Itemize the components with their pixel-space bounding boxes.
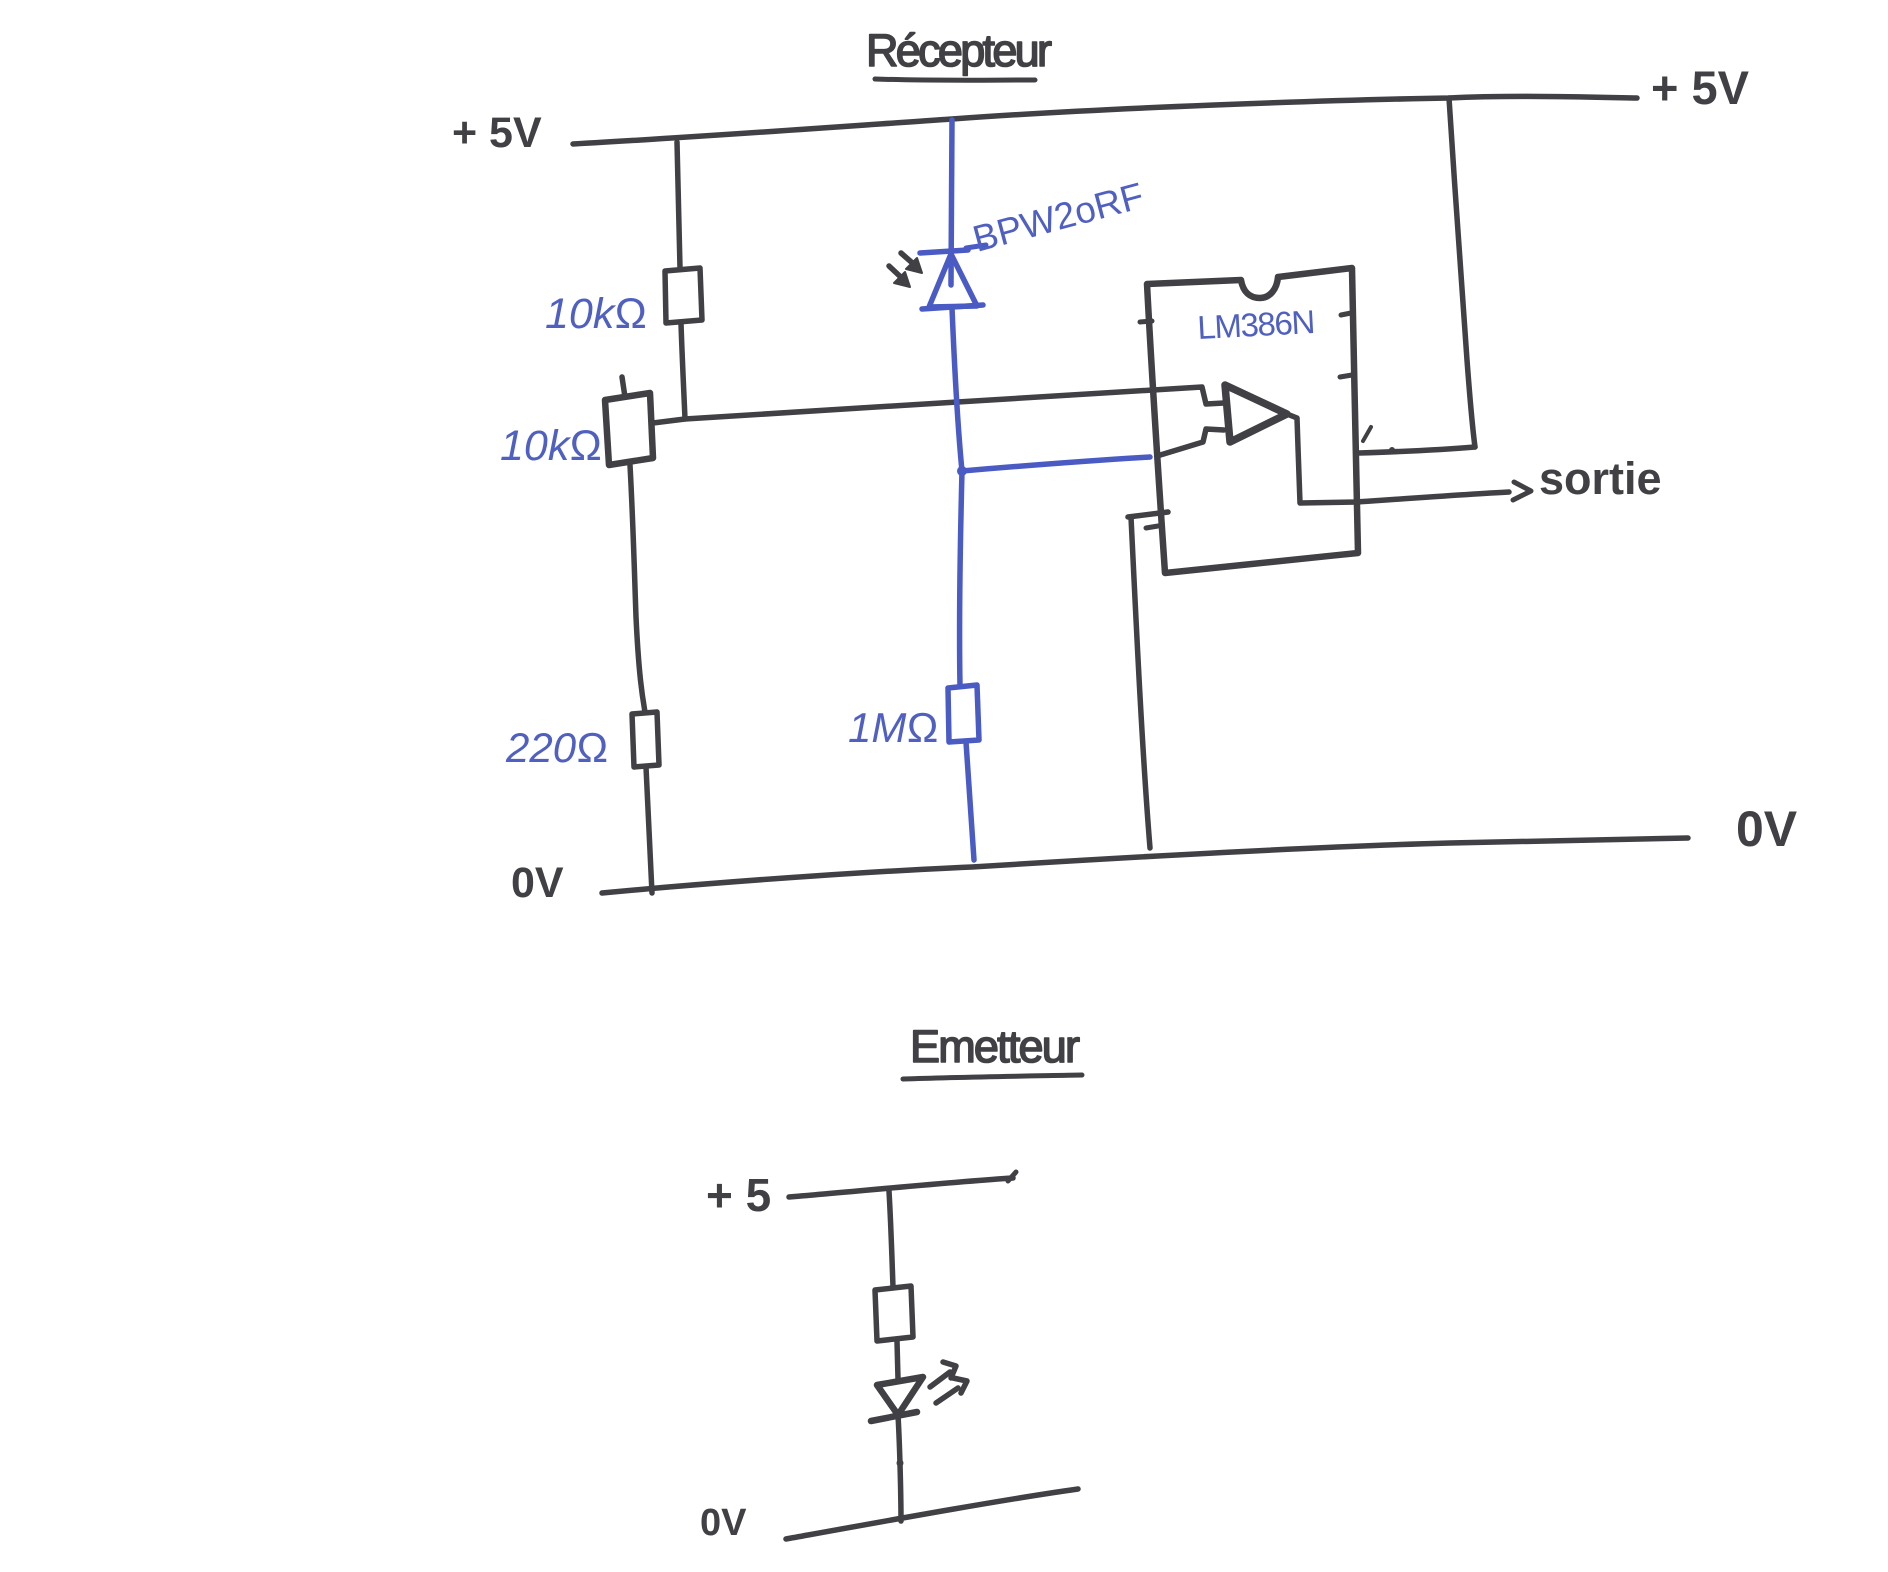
svg-text:+ 5V: + 5V (452, 109, 542, 157)
light arrow 1 out of LED (930, 1362, 956, 1387)
wire rail to R5 (889, 1191, 893, 1287)
svg-text:LM386N: LM386N (1196, 303, 1316, 346)
photodiode D1 cathode bar (920, 250, 968, 253)
resistor R2 10k box (605, 393, 653, 465)
op-amp input - wire (1157, 429, 1224, 456)
wire LED to 0V (898, 1415, 901, 1521)
IC U1 LM386 outline (1147, 268, 1358, 573)
wire +5V top rail (573, 96, 1637, 144)
wire R2 down to R3 (630, 465, 645, 712)
svg-text:220Ω: 220Ω (505, 724, 608, 771)
wire node to op-amp input blue (962, 457, 1150, 471)
wire +5 rail emitter (789, 1178, 1013, 1197)
svg-text:+ 5: + 5 (706, 1169, 771, 1221)
title underline (875, 79, 1035, 80)
tick mark near pin5 (1363, 427, 1371, 441)
light arrow 2 into photodiode (889, 266, 910, 287)
photodiode D1 label dash (966, 245, 986, 248)
resistor R2 10k stub top (622, 377, 625, 397)
svg-text:0V: 0V (700, 1502, 747, 1544)
rail end tick (1008, 1172, 1016, 1181)
light arrow 1 into photodiode (901, 253, 922, 273)
photodiode D1 base overdraw (922, 305, 983, 309)
resistor R1 10k box (665, 268, 702, 323)
wire right vertical from +5V rail (1449, 98, 1475, 447)
wire R2 to op-amp input + (653, 387, 1224, 423)
pin stub left low (1146, 526, 1158, 528)
resistor R4 1M box (948, 685, 979, 742)
svg-text:Récepteur: Récepteur (866, 25, 1052, 76)
op-amp U1 triangle (1225, 385, 1287, 442)
op-amp output wire to sortie (1287, 414, 1509, 503)
pin stub left top (1140, 321, 1152, 322)
LED D2 cathode bar (871, 1412, 917, 1421)
LED D2 triangle (877, 1377, 923, 1415)
wire GND pin stub (1128, 512, 1168, 517)
wire node down to R4 (960, 471, 962, 686)
wire R4 to 0V (966, 742, 974, 860)
svg-text:0V: 0V (1736, 801, 1798, 857)
svg-text:0V: 0V (511, 859, 564, 907)
node junction blue (957, 466, 967, 476)
title Récepteur (866, 25, 1052, 76)
wire R1 to junction (681, 323, 685, 419)
svg-text:BPW2oRF: BPW2oRF (968, 175, 1147, 260)
blob on wire (897, 1460, 904, 1467)
Emetteur underline (903, 1075, 1082, 1079)
wire R5 to LED (897, 1341, 898, 1379)
light arrow 2 out of LED (936, 1378, 967, 1403)
dot on pin6 wire (1389, 447, 1395, 453)
svg-text:10kΩ: 10kΩ (545, 290, 647, 338)
svg-text:sortie: sortie (1539, 453, 1662, 504)
pin stub right mid (1340, 375, 1352, 377)
sortie arrow head (1513, 482, 1531, 500)
resistor R3 220 box (632, 712, 659, 767)
wire 0V rail receiver (602, 838, 1688, 893)
resistor R5 box (875, 1286, 913, 1341)
pin stub right top (1341, 313, 1351, 315)
wire 0V rail emitter (786, 1489, 1078, 1539)
wire from rail to R1 (677, 142, 680, 268)
svg-text:1MΩ: 1MΩ (848, 704, 939, 751)
svg-text:10kΩ: 10kΩ (500, 422, 602, 470)
wire photodiode down to node (952, 308, 962, 471)
wire GND down to 0V (1131, 517, 1150, 848)
wire R3 to 0V (646, 767, 652, 893)
svg-text:Emetteur: Emetteur (910, 1021, 1080, 1072)
wire pin6 to IC (1359, 447, 1475, 453)
photodiode D1 triangle (929, 254, 977, 307)
svg-text:+ 5V: + 5V (1651, 61, 1750, 114)
photodiode D1 wire from rail (951, 120, 952, 285)
